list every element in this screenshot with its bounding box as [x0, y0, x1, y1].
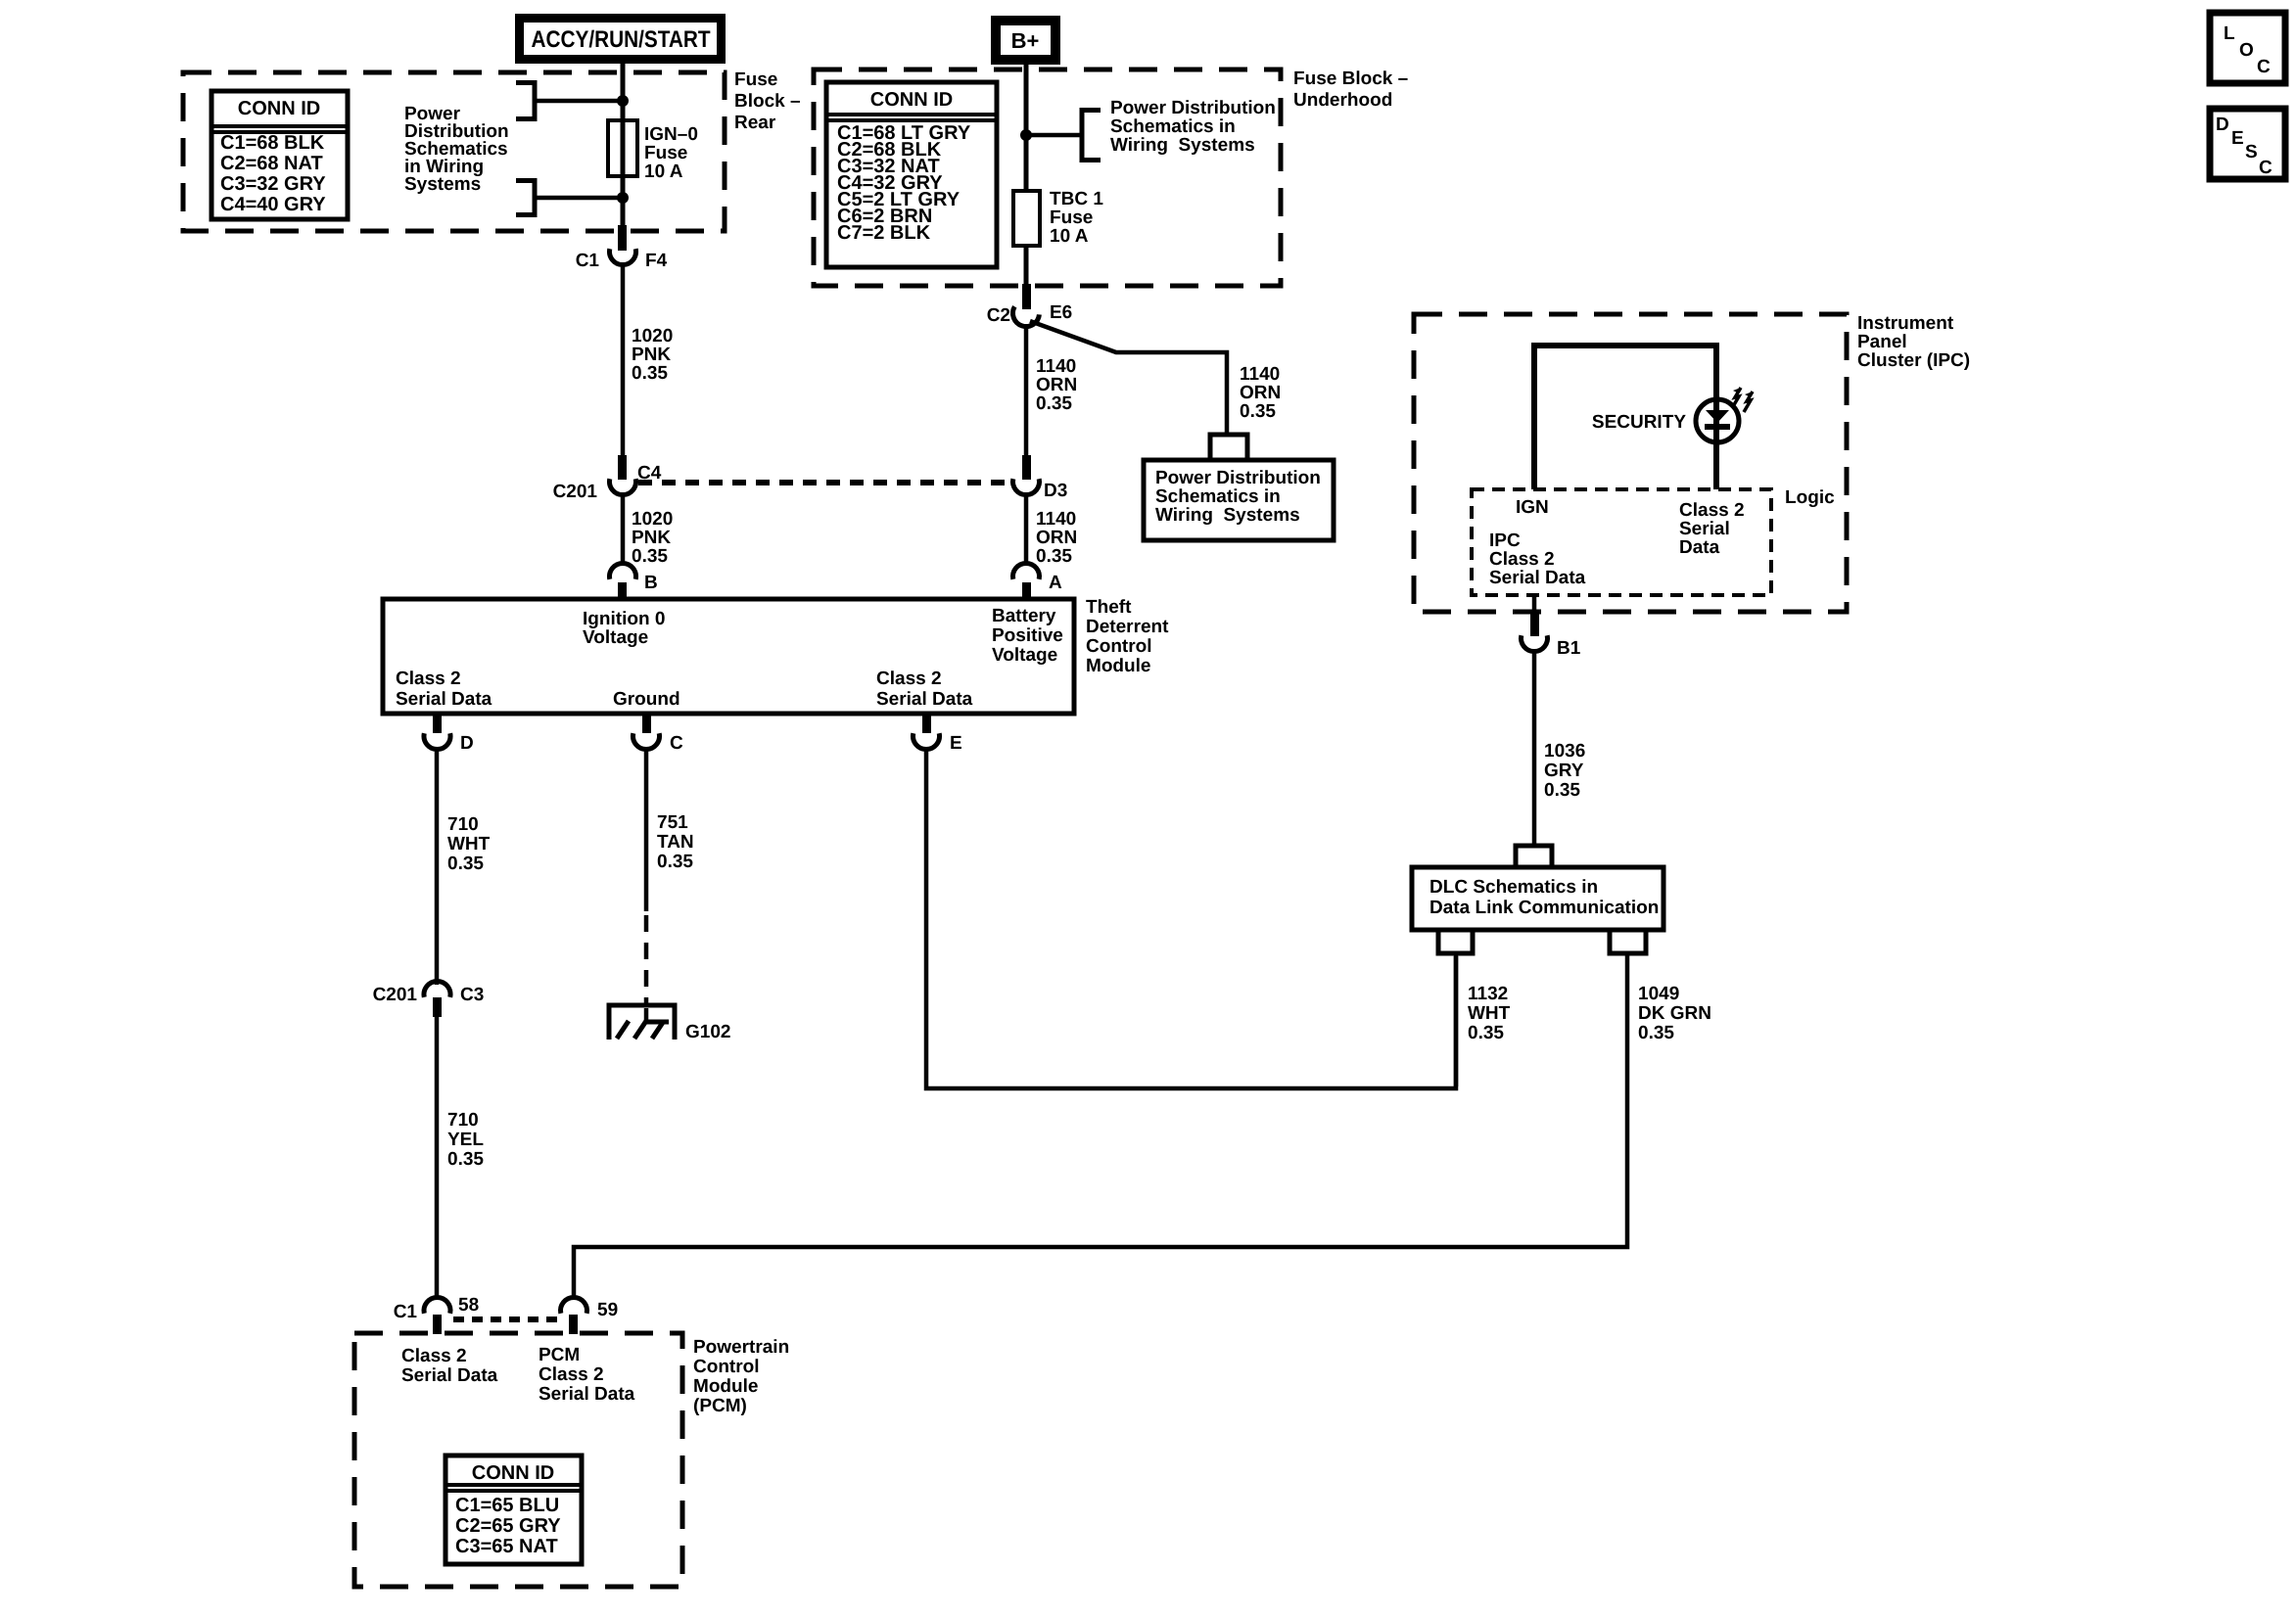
svg-text:0.35: 0.35	[1036, 393, 1072, 414]
svg-text:TAN: TAN	[657, 832, 694, 853]
off-page bracket lower (rear)	[516, 181, 621, 215]
label 751 TAN 0.35	[657, 812, 694, 872]
DESC corner box	[2210, 109, 2285, 179]
wire 710 WHT	[435, 749, 440, 985]
svg-text:B+: B+	[1011, 28, 1040, 53]
svg-text:D: D	[2216, 115, 2229, 135]
svg-text:Powertrain: Powertrain	[693, 1337, 789, 1358]
svg-text:710: 710	[447, 814, 479, 835]
power source box B+	[991, 16, 1060, 65]
pin B arch	[610, 563, 636, 578]
svg-text:TBC 1: TBC 1	[1050, 189, 1103, 209]
label Instrument Panel Cluster (IPC)	[1857, 313, 1970, 371]
svg-text:Data: Data	[1679, 537, 1720, 558]
connector C2 E6 stub	[1022, 284, 1031, 309]
CONN ID table (fuse block underhood)	[826, 82, 997, 267]
DLC reference box	[1412, 867, 1663, 930]
svg-text:1132: 1132	[1468, 984, 1508, 1004]
power source box ACCY/RUN/START	[515, 14, 726, 64]
svg-text:C3: C3	[460, 985, 484, 1005]
pin A arch	[1013, 563, 1040, 578]
svg-text:Serial Data: Serial Data	[401, 1365, 498, 1386]
svg-text:PNK: PNK	[632, 528, 671, 548]
svg-text:Logic: Logic	[1785, 487, 1835, 508]
svg-text:0.35: 0.35	[447, 854, 484, 874]
svg-text:C3=65 NAT: C3=65 NAT	[455, 1536, 558, 1557]
connector C201 C3 stub	[433, 997, 442, 1017]
svg-text:IGN: IGN	[1516, 497, 1549, 518]
label Powertrain Control Module (PCM)	[693, 1337, 789, 1416]
ground G102 symbol	[609, 1005, 675, 1039]
svg-text:0.35: 0.35	[632, 363, 668, 384]
svg-text:Fuse: Fuse	[734, 69, 777, 90]
svg-text:DLC Schematics in: DLC Schematics in	[1429, 877, 1598, 898]
svg-text:710: 710	[447, 1110, 479, 1131]
dashed connector line 58 to 59	[453, 1317, 558, 1322]
pin label Battery Positive Voltage	[992, 606, 1063, 666]
svg-text:Class 2: Class 2	[401, 1346, 467, 1366]
svg-text:C2=68 NAT: C2=68 NAT	[220, 153, 323, 174]
pin E stub	[922, 714, 931, 733]
text power distribution reference (rear)	[404, 104, 509, 195]
label Fuse Block Underhood	[1293, 69, 1408, 111]
wire B+ feed vertical	[1024, 65, 1029, 191]
wire 1020 PNK upper	[621, 265, 626, 457]
connector C2 E6 cup	[1009, 306, 1040, 330]
svg-text:Class 2: Class 2	[876, 669, 942, 689]
fuse IGN-0 10A	[608, 120, 698, 182]
svg-text:58: 58	[458, 1295, 479, 1316]
svg-text:Cluster (IPC): Cluster (IPC)	[1857, 350, 1970, 371]
wire 710 YEL	[435, 1017, 440, 1297]
powertrain control module dashed box	[354, 1333, 682, 1587]
svg-text:Positive: Positive	[992, 625, 1063, 646]
connector B1 stub	[1530, 612, 1539, 636]
connector D3 stub	[1022, 455, 1031, 480]
connector B1 cup	[1522, 635, 1548, 651]
svg-text:E: E	[2231, 128, 2244, 149]
svg-text:O: O	[2239, 40, 2254, 61]
wire through LED	[1713, 397, 1719, 489]
svg-text:A: A	[1049, 573, 1062, 593]
wire fuse to box edge	[1024, 246, 1029, 286]
fuse block underhood dashed box	[814, 69, 1281, 286]
wire 1132 WHT	[1454, 955, 1459, 1086]
svg-text:Wiring Systems: Wiring Systems	[1110, 135, 1255, 156]
pin label PCM Class 2 Serial Data	[539, 1345, 635, 1405]
label 1140 ORN 0.35 upper	[1036, 356, 1077, 414]
CONN ID table (PCM)	[445, 1455, 582, 1564]
svg-text:Systems: Systems	[404, 174, 481, 195]
svg-text:C4=40 GRY: C4=40 GRY	[220, 194, 326, 215]
theft deterrent control module box	[383, 599, 1074, 714]
svg-text:Wiring Systems: Wiring Systems	[1155, 505, 1300, 526]
svg-text:Ignition 0: Ignition 0	[583, 609, 665, 629]
svg-text:Voltage: Voltage	[583, 627, 648, 648]
wire 1020 PNK lower	[621, 496, 626, 566]
svg-text:Theft: Theft	[1086, 597, 1132, 618]
svg-text:WHT: WHT	[447, 834, 491, 855]
wire 1140 ORN branch diagonal	[1030, 321, 1227, 435]
dashed connector line C4 to D3	[638, 480, 1012, 485]
svg-text:0.35: 0.35	[1468, 1023, 1504, 1043]
text power distribution reference (underhood)	[1110, 98, 1276, 156]
svg-text:ACCY/RUN/START: ACCY/RUN/START	[532, 26, 711, 53]
label 1049 DK GRN 0.35	[1638, 984, 1711, 1043]
wire 1140 ORN upper	[1024, 324, 1029, 457]
connector C201 C4 cup	[610, 479, 636, 494]
wire class2 E run	[926, 749, 1456, 1088]
label Class 2 Serial Data (IPC right)	[1679, 500, 1745, 558]
connector D3 cup	[1013, 479, 1040, 494]
svg-text:S: S	[2245, 142, 2258, 162]
pin C cup	[633, 733, 660, 749]
staple DLC top	[1516, 846, 1552, 867]
svg-text:C201: C201	[553, 482, 598, 502]
svg-text:Class 2: Class 2	[1489, 549, 1555, 570]
svg-text:ORN: ORN	[1036, 375, 1077, 395]
svg-text:0.35: 0.35	[447, 1149, 484, 1170]
svg-text:L: L	[2224, 23, 2235, 44]
LED diode triangle	[1706, 410, 1729, 423]
svg-text:C1=65 BLU: C1=65 BLU	[455, 1495, 559, 1516]
svg-text:1020: 1020	[632, 509, 673, 530]
off-page bracket (underhood)	[1026, 111, 1101, 161]
svg-text:Serial Data: Serial Data	[539, 1384, 635, 1405]
pin C stub	[642, 714, 651, 733]
svg-text:SECURITY: SECURITY	[1592, 412, 1686, 433]
svg-text:PNK: PNK	[632, 345, 671, 365]
junction dot (underhood)	[1020, 129, 1032, 141]
svg-text:WHT: WHT	[1468, 1003, 1511, 1024]
svg-text:Schematics in: Schematics in	[1155, 486, 1281, 507]
staple DLC bottom left	[1438, 930, 1473, 953]
svg-text:C201: C201	[373, 985, 418, 1005]
svg-text:Panel: Panel	[1857, 332, 1907, 352]
label Theft Deterrent Control Module	[1086, 597, 1169, 676]
connector C201 C3 arch	[424, 981, 450, 996]
svg-text:D3: D3	[1044, 481, 1067, 501]
svg-text:E: E	[950, 733, 962, 754]
svg-text:YEL: YEL	[447, 1130, 484, 1150]
svg-text:Module: Module	[1086, 656, 1151, 676]
svg-text:CONN ID: CONN ID	[472, 1462, 554, 1484]
svg-text:Class 2: Class 2	[396, 669, 461, 689]
pin label Class 2 Serial Data (PCM)	[401, 1346, 498, 1386]
svg-text:Class 2: Class 2	[1679, 500, 1745, 521]
svg-text:E6: E6	[1050, 302, 1072, 323]
connector 59 stub	[569, 1315, 578, 1334]
svg-text:C1: C1	[394, 1302, 418, 1322]
svg-text:751: 751	[657, 812, 688, 833]
wire 1049 DK GRN run	[574, 955, 1627, 1297]
svg-text:1049: 1049	[1638, 984, 1679, 1004]
svg-text:C3=32 GRY: C3=32 GRY	[220, 173, 326, 195]
svg-text:Schematics in: Schematics in	[1110, 116, 1236, 137]
svg-text:PCM: PCM	[539, 1345, 580, 1365]
svg-text:Control: Control	[1086, 636, 1152, 657]
fuse block rear dashed box	[183, 72, 725, 231]
wire ACCY feed vertical	[621, 64, 626, 227]
pin D stub	[433, 714, 442, 733]
svg-text:0.35: 0.35	[632, 546, 668, 567]
connector C201 C4 stub	[618, 455, 627, 480]
svg-text:1036: 1036	[1544, 741, 1585, 762]
wire 751 TAN dashed	[644, 915, 649, 1004]
logic dashed box	[1472, 489, 1771, 595]
wire 1036 GRY	[1532, 652, 1537, 846]
svg-text:D: D	[460, 733, 474, 754]
svg-text:Power Distribution: Power Distribution	[1110, 98, 1276, 118]
connector C1 58 arch	[424, 1297, 450, 1313]
pin A stub	[1022, 582, 1031, 600]
svg-text:Serial Data: Serial Data	[876, 689, 973, 710]
svg-text:0.35: 0.35	[1240, 401, 1276, 422]
svg-text:0.35: 0.35	[657, 852, 693, 872]
label 710 YEL 0.35	[447, 1110, 484, 1170]
connector C1 58 stub	[433, 1315, 442, 1334]
LOC corner box	[2210, 13, 2285, 83]
svg-text:DK GRN: DK GRN	[1638, 1003, 1711, 1024]
label 1020 PNK 0.35 lower	[632, 509, 673, 567]
svg-text:1140: 1140	[1036, 356, 1076, 377]
svg-text:ORN: ORN	[1240, 383, 1281, 403]
junction dot upper (rear)	[617, 95, 629, 107]
svg-text:C2=65 GRY: C2=65 GRY	[455, 1515, 561, 1537]
staple into power distribution box	[1210, 435, 1247, 460]
label 1036 GRY 0.35	[1544, 741, 1585, 801]
off-page bracket upper (rear)	[516, 83, 621, 119]
svg-text:Fuse: Fuse	[644, 143, 687, 163]
svg-text:Module: Module	[693, 1376, 759, 1397]
label 1140 ORN 0.35 branch	[1240, 364, 1281, 422]
label Fuse Block Rear	[734, 69, 801, 133]
svg-text:1140: 1140	[1036, 509, 1076, 530]
wire IPC internal loop	[1534, 346, 1716, 489]
svg-text:C7=2 BLK: C7=2 BLK	[837, 222, 931, 244]
svg-text:0.35: 0.35	[1638, 1023, 1674, 1043]
svg-text:C1=68 BLK: C1=68 BLK	[220, 132, 325, 154]
svg-text:F4: F4	[645, 251, 668, 271]
pin label Class 2 Serial Data left	[396, 669, 492, 710]
label 1020 PNK 0.35 upper	[632, 326, 673, 384]
svg-text:0.35: 0.35	[1544, 780, 1580, 801]
pin D cup	[424, 733, 450, 749]
svg-text:B1: B1	[1557, 638, 1581, 659]
label 1140 ORN 0.35 lower	[1036, 509, 1077, 567]
svg-text:IGN–0: IGN–0	[644, 124, 698, 145]
svg-text:Fuse: Fuse	[1050, 208, 1093, 228]
instrument panel cluster dashed box	[1414, 314, 1847, 612]
svg-text:GRY: GRY	[1544, 761, 1584, 781]
svg-text:Ground: Ground	[613, 689, 680, 710]
svg-text:Serial Data: Serial Data	[396, 689, 492, 710]
svg-text:Underhood: Underhood	[1293, 90, 1392, 111]
svg-text:C: C	[2257, 57, 2271, 77]
fuse TBC 1 10A	[1013, 189, 1103, 247]
svg-text:C1: C1	[576, 251, 600, 271]
pin E cup	[914, 733, 940, 749]
wire logic to B1	[1532, 595, 1537, 614]
LED diode bar	[1705, 424, 1730, 430]
LED flash arrows	[1732, 388, 1753, 412]
svg-text:(PCM): (PCM)	[693, 1396, 747, 1416]
svg-text:Voltage: Voltage	[992, 645, 1057, 666]
pin B stub	[618, 582, 627, 600]
svg-text:CONN ID: CONN ID	[870, 89, 953, 111]
svg-text:59: 59	[597, 1300, 618, 1320]
label IPC Class 2 Serial Data	[1489, 531, 1586, 588]
svg-text:Fuse Block –: Fuse Block –	[1293, 69, 1408, 89]
svg-text:Power Distribution: Power Distribution	[1155, 468, 1321, 488]
svg-text:Serial: Serial	[1679, 519, 1730, 539]
connector 59 arch	[560, 1297, 586, 1313]
svg-text:1020: 1020	[632, 326, 673, 346]
staple DLC bottom right	[1610, 930, 1646, 953]
wire 1140 ORN lower	[1024, 496, 1029, 566]
power distribution reference box	[1144, 460, 1334, 540]
security LED circle	[1696, 399, 1739, 442]
label 1132 WHT 0.35	[1468, 984, 1511, 1043]
svg-text:Instrument: Instrument	[1857, 313, 1954, 334]
svg-text:C2: C2	[987, 305, 1010, 326]
connector C1 F4 stub	[618, 225, 627, 251]
svg-text:1140: 1140	[1240, 364, 1280, 385]
svg-text:IPC: IPC	[1489, 531, 1521, 551]
svg-text:10 A: 10 A	[1050, 226, 1089, 247]
svg-text:G102: G102	[685, 1022, 730, 1042]
svg-text:Deterrent: Deterrent	[1086, 617, 1169, 637]
pin label Ignition 0 Voltage	[583, 609, 665, 648]
svg-text:CONN ID: CONN ID	[238, 98, 320, 119]
label 710 WHT 0.35	[447, 814, 491, 874]
svg-text:Class 2: Class 2	[539, 1364, 604, 1385]
svg-text:Rear: Rear	[734, 113, 776, 133]
svg-text:Data Link Communication: Data Link Communication	[1429, 898, 1659, 918]
svg-text:ORN: ORN	[1036, 528, 1077, 548]
junction dot lower (rear)	[617, 192, 629, 204]
svg-text:Control: Control	[693, 1357, 760, 1377]
wire 751 TAN solid	[644, 749, 649, 911]
svg-text:Battery: Battery	[992, 606, 1056, 626]
svg-text:C: C	[670, 733, 683, 754]
CONN ID table (fuse block rear)	[211, 91, 348, 219]
svg-text:10 A: 10 A	[644, 162, 683, 182]
svg-text:C: C	[2259, 158, 2273, 178]
connector C1 F4 cup	[610, 249, 636, 264]
svg-text:Serial Data: Serial Data	[1489, 568, 1586, 588]
svg-text:0.35: 0.35	[1036, 546, 1072, 567]
svg-text:B: B	[644, 573, 658, 593]
pin label Class 2 Serial Data right	[876, 669, 973, 710]
svg-text:Block –: Block –	[734, 91, 801, 112]
